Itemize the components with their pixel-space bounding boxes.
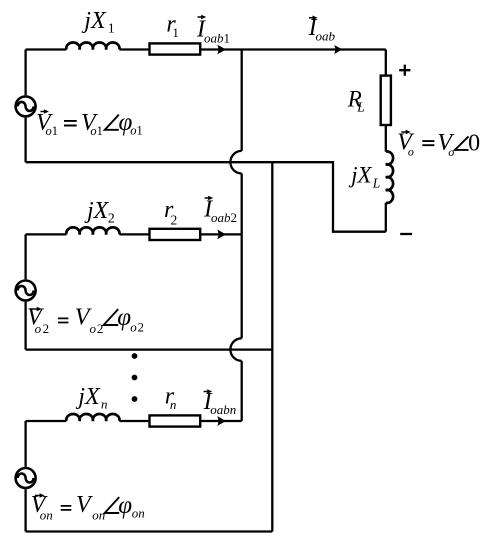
arrow I_oab1 (217, 45, 226, 55)
wire branch1 left rail upper (24, 50, 26, 96)
source Vo2 circle (16, 281, 36, 301)
wire load vertical top (385, 50, 387, 76)
svg-text:jXL: jXL (348, 163, 380, 191)
label angle symbol Vo1 (105, 115, 119, 130)
source Vo2 sine (18, 286, 34, 295)
svg-text:φon: φon (118, 492, 145, 521)
svg-text:Vo1Vo1: Vo1Vo1 (36, 110, 103, 138)
wire branchn coil to resistor (119, 420, 149, 422)
label angle symbol Vo2 (104, 309, 119, 325)
wire branch1 top left segment (26, 48, 67, 50)
source Vo1 circle (16, 96, 36, 116)
svg-text:Vo2Vo2: Vo2Vo2 (27, 305, 103, 336)
label Vo1 vector arrow (41, 111, 46, 113)
arrow I_oabn (217, 416, 226, 426)
inductor jX1 (66, 42, 119, 49)
label Von vector arrow (35, 495, 42, 497)
svg-text:jX2: jX2 (84, 198, 115, 227)
svg-text:0: 0 (468, 130, 480, 156)
source Vo1 sine (18, 102, 34, 111)
wire branch1 resistor to load corner (200, 48, 386, 50)
wire branch2 bottom (26, 348, 273, 350)
node dots ellipsis (132, 353, 138, 402)
svg-text:r2: r2 (164, 197, 177, 227)
svg-text:Ioabn: Ioabn (203, 389, 237, 417)
bus right (node b) (271, 162, 273, 531)
resistor r1 (150, 43, 201, 54)
wire branchn left rail lower (24, 489, 26, 531)
wire branch1 coil to resistor (119, 48, 149, 50)
label equals sign Vo2 (58, 318, 69, 322)
wire branch1 left rail lower (24, 118, 26, 163)
inductor jX2 (66, 227, 119, 234)
label I_oab2 vector arrow (205, 197, 211, 199)
wire branch2 left rail upper (24, 234, 26, 279)
wire branchn resistor to bus (200, 420, 242, 422)
wire branch2 top left segment (26, 233, 67, 235)
wire branchn bottom (26, 530, 273, 532)
label angle symbol for Vo (455, 136, 469, 150)
wire load between RL and jXL (385, 125, 387, 152)
svg-text:Ioab2: Ioab2 (203, 196, 237, 225)
arrow I_oab2 (217, 230, 226, 240)
label Vo2 vector arrow (30, 308, 39, 310)
resistor r2 (150, 229, 201, 240)
hop over branch2 bottom (230, 338, 241, 361)
inductor jXL (386, 151, 393, 203)
label angle symbol Von (105, 497, 120, 513)
svg-text:RL: RL (347, 86, 365, 114)
label plus terminal (399, 65, 410, 76)
svg-text:jXn: jXn (75, 384, 107, 411)
arrow I_oab (334, 45, 342, 54)
wire branchn top left segment (26, 420, 67, 422)
wire branch2 left rail lower (24, 302, 26, 350)
hop over branch1 bottom (230, 151, 241, 174)
svg-text:jX1: jX1 (81, 8, 114, 36)
source Von circle (16, 468, 36, 488)
wire load bottom (385, 203, 387, 232)
bus left lower (241, 361, 243, 421)
svg-text:VonVon: VonVon (31, 492, 106, 522)
resistor RL (381, 76, 391, 125)
source Von sine (18, 474, 34, 483)
svg-text:Ioab1: Ioab1 (196, 16, 230, 45)
label equals sign Vo1 (64, 121, 77, 126)
label minus terminal (400, 233, 412, 235)
resistor rn (150, 415, 201, 426)
label Vo vector arrow (401, 131, 407, 133)
svg-text:rn: rn (165, 384, 177, 412)
svg-text:VoVo: VoVo (397, 129, 454, 159)
label I_oab1 vector arrow (198, 16, 204, 18)
svg-text:r1: r1 (166, 12, 179, 41)
inductor jXn (66, 414, 119, 421)
bus left upper (node a) (241, 50, 243, 151)
wire branchn left rail upper (24, 421, 26, 467)
svg-text:φo1: φo1 (119, 109, 143, 138)
wire branch1 bottom to jog and load bottom (26, 162, 386, 232)
wire branch2 resistor to bus (200, 233, 242, 235)
svg-text:Ioab: Ioab (308, 15, 336, 44)
label equals sign Vo (422, 141, 434, 145)
wire branch2 coil to resistor (119, 233, 149, 235)
svg-text:φo2: φo2 (117, 304, 144, 335)
bus left middle (241, 174, 243, 339)
label equals sign Von (61, 506, 72, 510)
label I_oabn vector arrow (204, 391, 210, 393)
label I_oab vector arrow (309, 17, 315, 19)
